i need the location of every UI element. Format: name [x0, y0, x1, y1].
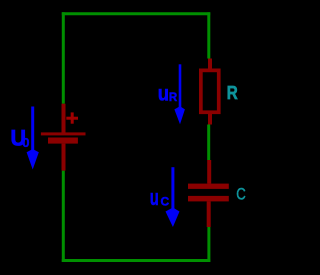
resistor R lead top	[208, 59, 212, 71]
label uC	[150, 185, 170, 210]
svg-text:0: 0	[22, 135, 29, 150]
svg-text:R: R	[227, 82, 238, 103]
label R value	[227, 82, 238, 103]
capacitor C lead top	[207, 160, 211, 184]
label uR	[158, 82, 178, 105]
wire right upper	[207, 12, 210, 58]
capacitor C plate bottom	[188, 196, 229, 202]
svg-text:u: u	[150, 185, 159, 210]
battery plus sign	[66, 112, 78, 123]
capacitor C plate top	[188, 184, 229, 189]
arrow uC	[166, 167, 180, 227]
svg-text:C: C	[161, 194, 170, 208]
arrow U0	[27, 107, 39, 170]
resistor R body	[201, 70, 219, 112]
svg-text:u: u	[158, 82, 169, 105]
battery U0 lead bottom	[62, 144, 66, 171]
resistor R lead bottom	[208, 113, 212, 125]
battery U0 lead top	[62, 104, 66, 133]
label U0	[11, 125, 30, 150]
wire top	[62, 12, 210, 15]
capacitor C lead bottom	[207, 201, 211, 227]
svg-text:C: C	[236, 185, 246, 203]
svg-text:R: R	[169, 92, 178, 104]
battery U0 minus plate	[48, 138, 78, 144]
label C value	[236, 185, 246, 203]
wire bottom	[62, 259, 210, 262]
wire right lower	[207, 227, 210, 262]
wire right middle	[207, 125, 210, 161]
battery U0 plus plate	[41, 132, 86, 135]
wire left upper	[62, 12, 65, 103]
wire left lower	[62, 171, 65, 262]
arrow uR	[174, 64, 185, 124]
